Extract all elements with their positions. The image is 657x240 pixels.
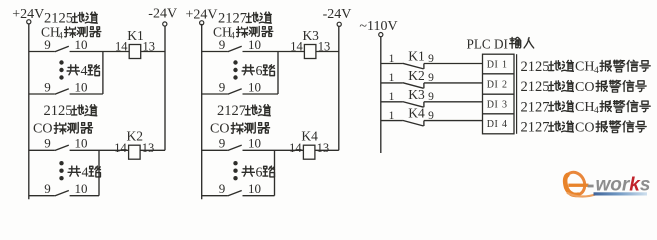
svg-text:K3: K3	[408, 87, 425, 102]
svg-text:CO: CO	[210, 122, 229, 137]
svg-text:14: 14	[114, 141, 127, 155]
svg-text:K2: K2	[408, 68, 425, 83]
svg-text:CO: CO	[575, 120, 594, 135]
svg-text:DI: DI	[487, 99, 499, 110]
svg-text:DI: DI	[487, 59, 499, 70]
svg-text:K3: K3	[302, 28, 319, 43]
svg-text:10: 10	[248, 37, 261, 52]
svg-text:9: 9	[428, 91, 434, 103]
svg-text:2127: 2127	[217, 103, 246, 119]
svg-text:13: 13	[143, 39, 156, 53]
svg-text:4: 4	[502, 119, 507, 130]
svg-text:K4: K4	[301, 129, 318, 144]
svg-text:PLC DI: PLC DI	[467, 37, 508, 52]
svg-text:3: 3	[502, 99, 507, 110]
svg-text:CH: CH	[575, 60, 594, 75]
svg-text:10: 10	[75, 136, 88, 151]
svg-text:9: 9	[219, 37, 226, 52]
svg-text:10: 10	[75, 37, 88, 52]
svg-text:1: 1	[389, 72, 395, 84]
svg-text:4: 4	[594, 66, 599, 76]
svg-text:4: 4	[594, 106, 599, 116]
svg-text:CO: CO	[33, 122, 52, 137]
svg-text:10: 10	[75, 79, 88, 94]
svg-text:DI: DI	[487, 79, 499, 90]
svg-text:4: 4	[230, 30, 235, 40]
svg-text:4: 4	[82, 166, 89, 181]
svg-text:4: 4	[58, 31, 63, 41]
svg-text:10: 10	[248, 136, 261, 151]
svg-text:9: 9	[219, 79, 226, 94]
svg-text:10: 10	[248, 181, 261, 196]
svg-text:1: 1	[389, 91, 395, 103]
svg-text:14: 14	[290, 39, 303, 53]
svg-text:2127: 2127	[521, 99, 550, 115]
svg-text:2127: 2127	[521, 120, 550, 136]
svg-text:K1: K1	[408, 49, 425, 64]
svg-text:CH: CH	[575, 100, 594, 115]
svg-text:13: 13	[317, 141, 330, 155]
svg-text:2125: 2125	[521, 59, 550, 75]
svg-text:9: 9	[44, 37, 51, 52]
svg-text:14: 14	[289, 141, 302, 155]
svg-text:13: 13	[142, 141, 155, 155]
svg-text:9: 9	[219, 136, 226, 151]
svg-text:9: 9	[44, 79, 51, 94]
svg-text:14: 14	[115, 39, 128, 53]
svg-text:6: 6	[256, 64, 263, 79]
svg-text:1: 1	[502, 59, 507, 70]
svg-text:9: 9	[428, 110, 434, 122]
svg-text:2: 2	[502, 79, 507, 90]
svg-text:K1: K1	[127, 28, 144, 43]
svg-text:13: 13	[318, 39, 331, 53]
svg-text:4: 4	[81, 64, 88, 79]
svg-text:K4: K4	[408, 106, 425, 121]
svg-text:10: 10	[75, 181, 88, 196]
svg-text:2125: 2125	[44, 103, 73, 119]
svg-text:-24V: -24V	[323, 7, 352, 22]
svg-text:10: 10	[248, 79, 261, 94]
svg-text:~110V: ~110V	[359, 19, 397, 34]
svg-text:9: 9	[428, 72, 434, 84]
svg-text:CO: CO	[575, 80, 594, 95]
svg-text:DI: DI	[487, 119, 499, 130]
svg-text:1: 1	[389, 53, 395, 65]
svg-text:1: 1	[389, 110, 395, 122]
svg-text:-24V: -24V	[148, 6, 177, 21]
svg-text:K2: K2	[127, 129, 144, 144]
svg-text:9: 9	[219, 181, 226, 196]
svg-text:9: 9	[428, 53, 434, 65]
svg-text:6: 6	[256, 166, 263, 181]
svg-text:9: 9	[44, 136, 51, 151]
svg-text:9: 9	[44, 181, 51, 196]
svg-text:2125: 2125	[521, 79, 550, 95]
